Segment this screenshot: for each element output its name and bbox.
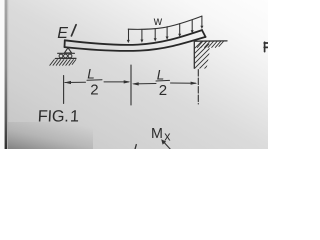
beam (deflected, two edges + end caps): [65, 30, 206, 51]
dashed line below wall / right dimension tick: [197, 70, 199, 104]
left roller support: pin triangle: [64, 48, 71, 53]
load arrows (7): [129, 16, 202, 40]
book spine line: [5, 0, 8, 149]
svg-text:2: 2: [90, 81, 98, 98]
svg-text:2: 2: [159, 82, 167, 99]
svg-text:E: E: [57, 25, 68, 42]
dimension arrowheads: [64, 80, 197, 85]
rollers (3 circles): [59, 54, 63, 58]
right support: top surface line: [194, 40, 227, 42]
left white page-edge strip: [0, 0, 5, 149]
svg-text:M: M: [151, 126, 163, 142]
page background: [0, 0, 268, 149]
tick of figure below (bottom edge): [135, 145, 136, 150]
bottom-left corner shadow: [8, 122, 93, 149]
left support bar: [58, 52, 75, 54]
right support: wall left edge: [193, 41, 195, 68]
dimension line left span: [65, 81, 86, 83]
middle dimension tick: [130, 65, 132, 105]
svg-text:w: w: [153, 16, 163, 28]
wall column hatching: [191, 38, 212, 76]
ground hatching left support: [50, 60, 76, 66]
partial letter at right edge: [264, 42, 268, 51]
ground line under rollers: [55, 57, 76, 59]
left dimension tick: [63, 76, 65, 104]
svg-text:L: L: [157, 67, 165, 82]
svg-text:L: L: [87, 67, 95, 82]
distributed load line w: [128, 16, 202, 29]
ledge hatching (below surface line): [197, 42, 223, 48]
dimension line right span: [134, 83, 156, 85]
Mx arrow: [164, 142, 172, 151]
svg-text:FIG.1: FIG.1: [37, 108, 79, 126]
